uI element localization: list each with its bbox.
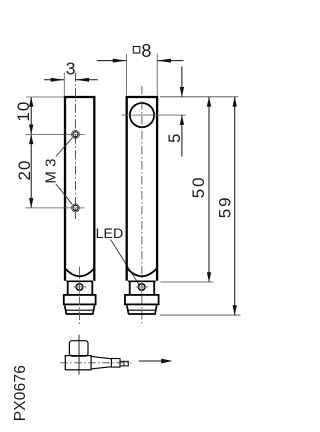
- svg-text:8: 8: [141, 41, 151, 61]
- extension line at connector end: [160, 314, 241, 316]
- svg-text:50: 50: [189, 175, 208, 198]
- left body outline: [64, 96, 95, 281]
- circle horizontal centerline / 5 extension: [122, 114, 186, 116]
- plug top box: [69, 341, 88, 356]
- dome arc: [127, 268, 157, 276]
- M3 leader to hole 1: [56, 138, 73, 157]
- extension line at body bottom: [160, 281, 213, 283]
- square symbol: [133, 47, 140, 54]
- left hole centerline: [75, 73, 77, 219]
- LED leader: [111, 240, 139, 285]
- right vertical centerline: [141, 86, 143, 325]
- svg-text:3: 3: [66, 59, 76, 79]
- svg-text:PX0676: PX0676: [12, 365, 29, 421]
- M3 leader to hole 2: [56, 184, 72, 205]
- left collar: [68, 282, 93, 294]
- sensing face circle: [130, 103, 154, 127]
- plug taper: [91, 356, 111, 369]
- plug vertical centerline: [78, 335, 80, 375]
- right LED hole: [138, 284, 145, 291]
- right LED hole crosshair: [136, 282, 149, 292]
- dimension 10 / 20 (left column): [25, 97, 84, 208]
- extension through hole 2: [25, 207, 84, 209]
- dome arc: [65, 268, 94, 276]
- left thread taper: [65, 306, 95, 315]
- svg-text:M 3: M 3: [43, 159, 60, 184]
- plug horizontal centerline: [60, 362, 131, 364]
- extension line top: [26, 96, 64, 98]
- dimension 5: [180, 66, 184, 156]
- svg-text:10: 10: [14, 101, 33, 122]
- right flange: [125, 295, 159, 305]
- svg-text:59: 59: [216, 195, 235, 218]
- left LED hole crosshair: [73, 282, 86, 292]
- svg-text:LED: LED: [96, 226, 124, 242]
- right body outline: [126, 96, 159, 281]
- body bottom line: [66, 280, 93, 282]
- dimension 3 (hole offset): [44, 73, 98, 96]
- plug body: [65, 356, 91, 370]
- dimension square-8: [97, 54, 184, 96]
- mounting hole 1 (M3): [72, 130, 80, 138]
- mounting hole 2 (M3): [72, 204, 80, 212]
- body bottom line: [128, 280, 156, 282]
- plug tip: [120, 361, 128, 366]
- left thread line: [66, 309, 94, 311]
- left body centerline: [79, 267, 81, 325]
- svg-text:20: 20: [15, 160, 34, 181]
- plug cylinder: [111, 359, 120, 368]
- right thread taper: [127, 306, 157, 315]
- direction arrow: [139, 360, 162, 362]
- plug tip divider: [123, 361, 125, 366]
- left flange: [64, 295, 96, 305]
- svg-text:5: 5: [166, 134, 184, 143]
- left LED hole: [76, 284, 83, 291]
- right collar: [130, 282, 155, 294]
- right thread line: [128, 309, 156, 311]
- extension through hole 1: [25, 133, 84, 135]
- dimension 50: [207, 97, 211, 282]
- top extension line right: [160, 96, 238, 98]
- dimension 59: [233, 97, 237, 315]
